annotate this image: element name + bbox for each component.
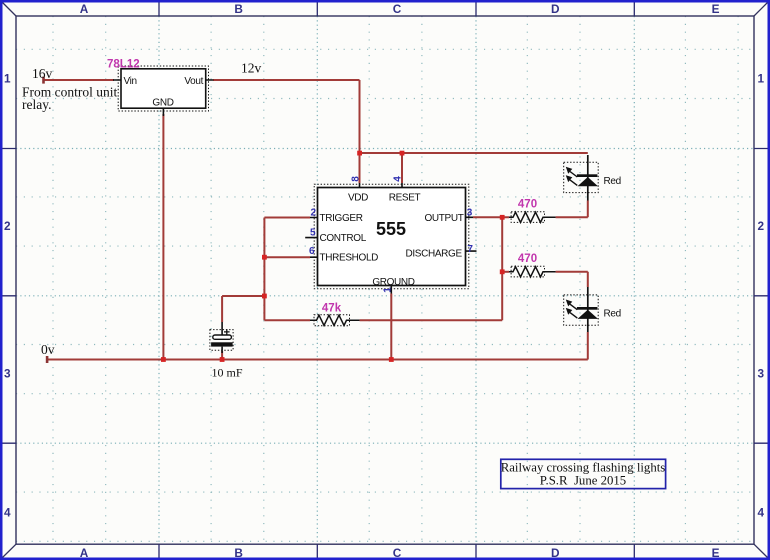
- svg-text:5: 5: [310, 227, 316, 238]
- svg-text:1: 1: [383, 287, 394, 293]
- svg-text:7: 7: [467, 244, 473, 255]
- svg-text:D: D: [551, 2, 560, 16]
- svg-text:RESET: RESET: [389, 193, 421, 204]
- svg-text:3: 3: [758, 367, 765, 381]
- svg-text:E: E: [712, 2, 720, 16]
- svg-text:Vin: Vin: [124, 76, 137, 87]
- svg-text:2: 2: [310, 208, 316, 219]
- svg-text:4: 4: [4, 506, 11, 520]
- svg-text:B: B: [234, 2, 243, 16]
- svg-text:1: 1: [4, 71, 11, 85]
- svg-text:DISCHARGE: DISCHARGE: [405, 248, 462, 259]
- svg-text:Railway crossing flashing ligh: Railway crossing flashing lights: [501, 461, 666, 475]
- svg-text:8: 8: [351, 176, 362, 182]
- svg-text:TRIGGER: TRIGGER: [320, 213, 363, 224]
- svg-text:16v: 16v: [32, 66, 53, 81]
- svg-text:Red: Red: [604, 176, 621, 187]
- svg-text:78L12: 78L12: [107, 59, 140, 71]
- svg-text:OUTPUT: OUTPUT: [424, 213, 463, 224]
- svg-text:Vout: Vout: [184, 76, 203, 87]
- svg-text:470: 470: [518, 253, 537, 265]
- svg-text:3: 3: [4, 367, 11, 381]
- svg-text:3: 3: [467, 207, 473, 218]
- svg-text:D: D: [551, 546, 560, 560]
- svg-text:10 mF: 10 mF: [212, 366, 243, 380]
- svg-text:A: A: [80, 546, 89, 560]
- svg-text:C: C: [393, 2, 402, 16]
- svg-text:47k: 47k: [322, 303, 342, 315]
- svg-text:555: 555: [376, 219, 406, 239]
- svg-text:470: 470: [518, 199, 537, 211]
- svg-text:GROUND: GROUND: [372, 277, 414, 288]
- svg-text:GND: GND: [152, 98, 173, 109]
- svg-text:2: 2: [758, 219, 765, 233]
- svg-text:relay.: relay.: [22, 97, 51, 112]
- svg-text:C: C: [393, 546, 402, 560]
- svg-text:2: 2: [4, 219, 11, 233]
- svg-text:CONTROL: CONTROL: [320, 233, 367, 244]
- svg-text:6: 6: [309, 246, 315, 257]
- svg-text:VDD: VDD: [348, 193, 368, 204]
- svg-text:4: 4: [758, 506, 765, 520]
- svg-text:12v: 12v: [241, 61, 262, 76]
- svg-text:4: 4: [392, 176, 403, 182]
- svg-text:E: E: [712, 546, 720, 560]
- svg-text:1: 1: [758, 71, 765, 85]
- svg-text:A: A: [80, 2, 89, 16]
- svg-text:Red: Red: [604, 309, 621, 320]
- svg-text:0v: 0v: [41, 342, 55, 357]
- svg-text:THRESHOLD: THRESHOLD: [320, 253, 379, 264]
- svg-text:B: B: [234, 546, 243, 560]
- svg-text:P.S.R June 2015: P.S.R June 2015: [540, 474, 626, 488]
